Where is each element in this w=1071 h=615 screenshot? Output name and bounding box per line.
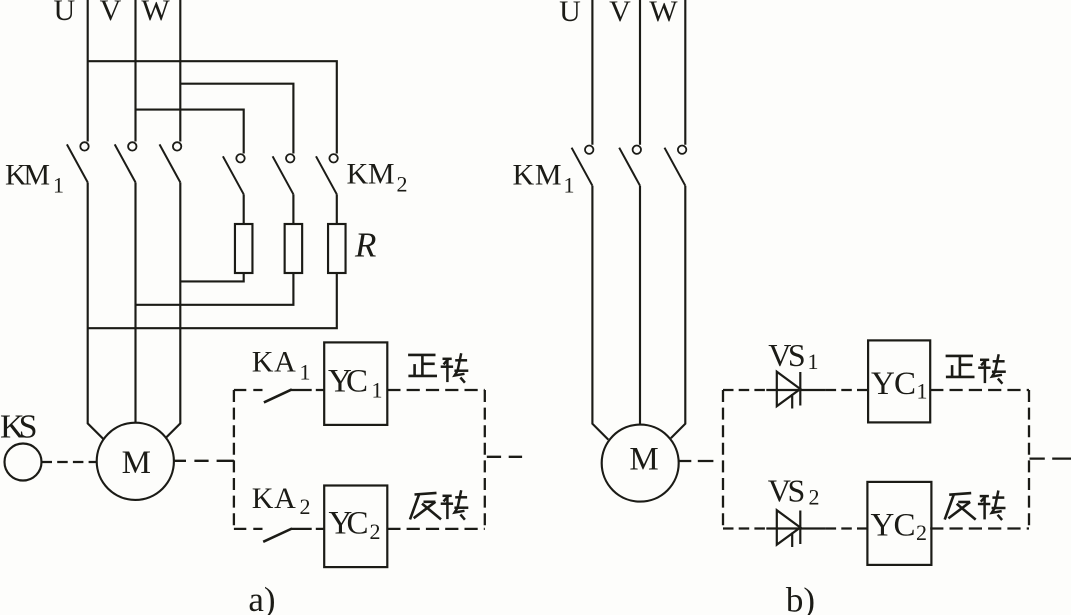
svg-text:U: U	[53, 0, 75, 27]
svg-text:KM: KM	[513, 158, 562, 191]
svg-text:R: R	[354, 226, 376, 265]
svg-text:1: 1	[917, 379, 928, 404]
svg-text:a): a)	[248, 580, 275, 615]
svg-text:1: 1	[300, 360, 311, 385]
svg-text:VS: VS	[768, 337, 806, 373]
svg-text:W: W	[649, 0, 678, 28]
svg-text:YC: YC	[871, 508, 916, 544]
svg-text:1: 1	[372, 378, 383, 403]
svg-text:U: U	[559, 0, 581, 28]
svg-text:YC: YC	[871, 366, 916, 402]
svg-text:KM: KM	[5, 158, 50, 191]
svg-text:KA: KA	[252, 482, 296, 515]
svg-text:2: 2	[916, 520, 927, 545]
svg-text:M: M	[629, 442, 658, 478]
svg-text:KA: KA	[252, 346, 296, 379]
svg-text:b): b)	[786, 581, 815, 615]
svg-text:W: W	[141, 0, 170, 27]
svg-text:2: 2	[370, 519, 381, 544]
svg-text:YC: YC	[328, 363, 368, 399]
svg-text:KS: KS	[0, 409, 38, 446]
svg-text:1: 1	[808, 349, 819, 374]
svg-text:1: 1	[564, 173, 575, 198]
svg-text:2: 2	[300, 494, 311, 519]
svg-text:2: 2	[397, 172, 408, 197]
svg-text:1: 1	[53, 173, 64, 198]
svg-text:YC: YC	[329, 506, 369, 542]
svg-text:VS: VS	[768, 473, 806, 509]
svg-text:V: V	[100, 0, 122, 27]
svg-text:2: 2	[809, 485, 820, 510]
svg-text:KM: KM	[347, 158, 395, 191]
svg-text:M: M	[122, 445, 151, 481]
svg-text:V: V	[609, 0, 631, 28]
